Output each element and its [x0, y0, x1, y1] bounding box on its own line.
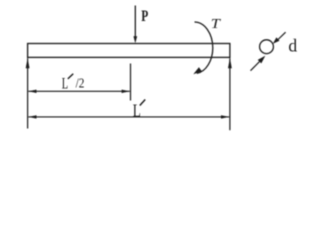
svg-text:d: d — [288, 36, 297, 56]
upper-right diameter arrow — [273, 32, 286, 44]
dimension line L'/2 — [28, 90, 130, 93]
beam (shaft) rectangle — [28, 44, 230, 58]
torque arrowhead — [193, 67, 202, 74]
dimension line L' — [28, 115, 229, 118]
svg-text:L: L — [133, 100, 141, 120]
svg-text:/2: /2 — [76, 75, 85, 90]
svg-text:L: L — [62, 76, 68, 93]
svg-text:P: P — [141, 8, 148, 25]
midspan extension line — [130, 64, 132, 101]
cross-section circle — [260, 40, 274, 54]
svg-text:T: T — [211, 17, 222, 32]
right support: extension line + up arrow — [228, 58, 232, 130]
left support: extension line + up arrow — [26, 58, 30, 129]
force P arrow — [133, 6, 137, 44]
lower-left diameter arrow — [251, 56, 266, 71]
torque T arc with arrowhead — [195, 22, 213, 73]
